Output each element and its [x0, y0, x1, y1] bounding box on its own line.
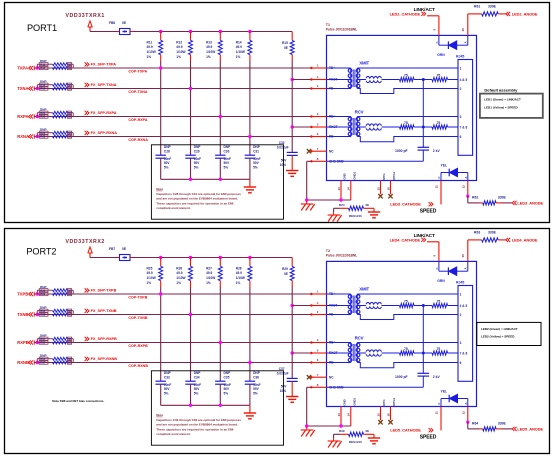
- svg-text:0E: 0E: [68, 67, 71, 70]
- svg-text:Default assembly: Default assembly: [484, 88, 518, 93]
- resistor R29 0E: [291, 258, 293, 267]
- svg-text:4: 4: [317, 75, 319, 79]
- svg-text:LED2 (Green) = LINK/ACT: LED2 (Green) = LINK/ACT: [481, 327, 518, 331]
- wire column R13 to cap: [219, 61, 221, 155]
- svg-text:49.9: 49.9: [147, 45, 153, 49]
- wire bus to ground: [249, 179, 251, 186]
- svg-text:1000 pF: 1000 pF: [395, 149, 408, 153]
- wire XMIT secondary top: [357, 293, 458, 295]
- pin 11 stub: [440, 407, 442, 431]
- no-connect pin 15: [378, 194, 382, 198]
- svg-text:0E: 0E: [68, 338, 71, 341]
- svg-text:5: 5: [317, 123, 319, 127]
- net label FX_SFP-RXNB: [85, 357, 87, 361]
- wire column R12 to cap: [190, 61, 192, 155]
- svg-text:R26: R26: [176, 266, 182, 270]
- svg-text:FX_SFP-TXPA: FX_SFP-TXPA: [91, 63, 117, 67]
- svg-text:Pulse J0011D01BNL: Pulse J0011D01BNL: [326, 28, 358, 32]
- wire R gnd right: [373, 208, 375, 211]
- svg-text:50V: 50V: [281, 159, 288, 163]
- svg-text:C36: C36: [253, 375, 259, 379]
- choke XMIT: [357, 305, 366, 307]
- svg-text:XMIT: XMIT: [359, 286, 369, 291]
- svg-text:YEL: YEL: [441, 164, 448, 168]
- svg-text:C35: C35: [224, 375, 230, 379]
- svg-text:R62: R62: [472, 196, 478, 200]
- svg-text:10: 10: [461, 254, 465, 258]
- svg-text:SPEED: SPEED: [420, 209, 437, 215]
- svg-text:3: 3: [460, 115, 462, 119]
- pin 9 stub: [438, 242, 440, 262]
- svg-text:DNP: DNP: [164, 145, 172, 149]
- svg-text:8: 8: [317, 157, 319, 161]
- svg-text:NC: NC: [329, 149, 334, 153]
- junction RXNA split: [36, 135, 39, 138]
- wire RXNA row: [34, 136, 311, 138]
- transformer RCV core: [352, 118, 354, 135]
- wire RCV secondary bottom detour: [357, 137, 458, 142]
- svg-text:COP-RXNB: COP-RXNB: [128, 364, 148, 368]
- PORT2 sheet frame: [5, 229, 550, 454]
- pin 3 stub: [311, 342, 326, 344]
- svg-text:7 & 8: 7 & 8: [460, 351, 468, 355]
- svg-text:R13: R13: [206, 40, 212, 44]
- transformer RCV primary winding: [350, 117, 352, 137]
- svg-text:1/10W: 1/10W: [236, 276, 245, 280]
- junction RXPB split: [36, 341, 39, 344]
- wire column R14 to cap: [249, 61, 251, 155]
- wire TXCT internal: [327, 79, 351, 81]
- wire R gnd right: [373, 434, 375, 437]
- svg-text:FX_SFP-TXPB: FX_SFP-TXPB: [91, 289, 117, 293]
- svg-text:COP-TXPA: COP-TXPA: [128, 69, 147, 73]
- resistor R33 0E: [39, 313, 48, 316]
- svg-text:DNP: DNP: [224, 371, 232, 375]
- junction termination node RCV: [422, 126, 425, 129]
- transformer XMIT secondary winding: [356, 294, 358, 315]
- pin 5 stub: [311, 352, 326, 354]
- svg-text:T1: T1: [326, 23, 330, 27]
- svg-text:1%: 1%: [206, 55, 211, 59]
- resistor R39 RES1210: [340, 433, 348, 435]
- wire R gnd left: [333, 208, 335, 212]
- svg-text:and are not populated on the E: and are not populated on the EVB8864 eva…: [156, 423, 238, 427]
- svg-text:10%: 10%: [280, 389, 287, 393]
- svg-text:0E: 0E: [366, 203, 370, 207]
- svg-text:PORT2: PORT2: [26, 247, 56, 257]
- resistor R35 0E: [39, 341, 48, 344]
- svg-text:75: 75: [437, 121, 441, 125]
- resistor R19 0E: [39, 87, 48, 90]
- svg-text:2: 2: [460, 313, 462, 317]
- svg-text:49.9: 49.9: [176, 45, 182, 49]
- wire cap bank bus: [161, 404, 250, 406]
- junction rail/R27: [219, 256, 222, 259]
- svg-text:0E: 0E: [68, 112, 71, 115]
- svg-text:C: C: [435, 267, 439, 269]
- pin 4 stub: [311, 79, 326, 81]
- pin 4 stub: [311, 305, 326, 307]
- pin 13 stub GND: [340, 181, 342, 201]
- svg-text:Capacitors C33 through C36 are: Capacitors C33 through C36 are optional …: [156, 418, 241, 422]
- svg-text:LED1 (Green) = LINK/ACT: LED1 (Green) = LINK/ACT: [484, 97, 521, 101]
- svg-text:TXNB: TXNB: [17, 312, 28, 317]
- svg-text:75: 75: [437, 300, 441, 304]
- svg-text:0E: 0E: [68, 362, 71, 365]
- svg-text:FX_SFP-RXPA: FX_SFP-RXPA: [91, 111, 117, 115]
- svg-text:49.9: 49.9: [206, 271, 212, 275]
- svg-text:5%: 5%: [224, 165, 229, 169]
- svg-text:R35: R35: [40, 341, 46, 345]
- pin 7 stub: [311, 376, 326, 378]
- no-connect NC: [307, 149, 311, 153]
- svg-text:COP-TXNB: COP-TXNB: [128, 316, 148, 320]
- svg-text:49.9: 49.9: [176, 271, 182, 275]
- svg-text:RCV: RCV: [355, 335, 364, 340]
- svg-text:R39: R39: [339, 429, 345, 433]
- svg-text:C: C: [437, 177, 441, 179]
- svg-text:8: 8: [317, 383, 319, 387]
- junction pin 12: [466, 421, 469, 424]
- junction rail/R28: [248, 256, 251, 259]
- svg-text:1%: 1%: [206, 281, 211, 285]
- svg-text:1%: 1%: [236, 55, 241, 59]
- wire TXCT: [292, 79, 311, 81]
- junction rail/R12: [189, 30, 192, 33]
- wire RD+ internal: [327, 342, 351, 344]
- wire CHS GND: [307, 160, 312, 162]
- transformer RCV secondary winding: [356, 117, 358, 137]
- junction TXCT: [291, 78, 294, 81]
- wire RCV secondary top: [357, 342, 458, 344]
- svg-text:0.022uF: 0.022uF: [277, 146, 289, 150]
- svg-text:0E: 0E: [284, 272, 288, 276]
- svg-text:0E: 0E: [68, 116, 71, 119]
- svg-text:RJ45: RJ45: [456, 55, 464, 59]
- ground (earth) cap bank: [244, 186, 256, 188]
- resistor R11 49.9: [160, 32, 162, 41]
- note box LED assignment: [477, 322, 541, 345]
- svg-text:RXPB: RXPB: [17, 340, 29, 345]
- svg-text:R63: R63: [474, 231, 480, 235]
- svg-text:R15: R15: [282, 41, 288, 45]
- svg-text:R21: R21: [40, 115, 46, 119]
- svg-text:5%: 5%: [253, 165, 258, 169]
- junction RXNB / termination: [248, 361, 251, 364]
- svg-text:R19: R19: [40, 87, 46, 91]
- junction RXCT: [291, 125, 294, 128]
- wire VDD rail: [90, 257, 117, 259]
- pin 14 stub GND1: [350, 181, 352, 201]
- resistor R26 49.9: [190, 258, 192, 267]
- svg-text:5%: 5%: [224, 391, 229, 395]
- pin 12 stub: [467, 181, 469, 197]
- wire XMIT secondary bottom detour: [357, 315, 458, 320]
- svg-text:7: 7: [317, 373, 319, 377]
- svg-text:1/10W: 1/10W: [206, 276, 215, 280]
- svg-text:FB6: FB6: [109, 21, 115, 25]
- svg-text:LED4_CATHODE: LED4_CATHODE: [390, 237, 421, 242]
- junction RXCT: [291, 351, 294, 354]
- svg-text:0E: 0E: [284, 46, 288, 50]
- junction TXPA / termination: [159, 66, 162, 69]
- pin 8 stub: [311, 386, 326, 388]
- pin 15 stub MTG: [380, 181, 382, 195]
- svg-text:12: 12: [461, 411, 465, 415]
- svg-text:MTG: MTG: [382, 173, 386, 179]
- svg-text:49.9: 49.9: [206, 45, 212, 49]
- wire TXPB row: [34, 293, 311, 295]
- wire RCV center: [382, 126, 400, 128]
- wire TD+ internal: [327, 67, 351, 69]
- transformer RCV core: [352, 344, 354, 361]
- svg-text:330E: 330E: [488, 5, 497, 9]
- svg-text:1/10W: 1/10W: [147, 276, 156, 280]
- junction TXNA split: [36, 87, 39, 90]
- pin 12 stub: [467, 407, 469, 423]
- wire cap to CHS GND: [422, 376, 424, 387]
- wire center-tap column: [291, 287, 293, 378]
- junction rail/R25: [159, 256, 162, 259]
- svg-text:4 & 5: 4 & 5: [460, 304, 468, 308]
- ground (chassis) R left: [333, 438, 335, 441]
- svg-text:Note FB6 and FB7 bias connecti: Note FB6 and FB7 bias connections.: [52, 399, 104, 403]
- svg-text:10%: 10%: [280, 163, 287, 167]
- note box LED assignment: [480, 94, 543, 118]
- net label FX_SFP-RXPB: [85, 337, 87, 341]
- wire RD+ internal: [327, 116, 351, 118]
- pin 15 stub MTG: [380, 407, 382, 421]
- wire XMIT secondary top: [357, 67, 458, 69]
- svg-text:GND1: GND1: [352, 397, 356, 405]
- svg-text:1/10W: 1/10W: [147, 50, 156, 54]
- svg-text:C33: C33: [164, 375, 170, 379]
- svg-text:FX_SFP-RXPB: FX_SFP-RXPB: [91, 337, 117, 341]
- svg-text:GND: GND: [343, 173, 347, 179]
- svg-text:COP-RXPA: COP-RXPA: [128, 118, 147, 122]
- resistor R31 0E: [39, 293, 48, 296]
- svg-text:TXNA: TXNA: [17, 86, 28, 91]
- ground (chassis) left: [306, 427, 308, 430]
- svg-text:330E: 330E: [498, 196, 507, 200]
- svg-text:VDD33TXRX1: VDD33TXRX1: [65, 13, 104, 19]
- svg-text:1%: 1%: [176, 281, 181, 285]
- ground (earth) under C37: [286, 396, 298, 398]
- svg-text:5: 5: [317, 349, 319, 353]
- svg-text:49.9: 49.9: [236, 271, 242, 275]
- wire TXCT internal: [327, 305, 351, 307]
- wire RXNB row: [34, 362, 311, 364]
- svg-text:R33: R33: [40, 313, 46, 317]
- svg-text:MTG1: MTG1: [392, 397, 396, 405]
- svg-text:75: 75: [437, 74, 441, 78]
- svg-text:A: A: [464, 403, 468, 405]
- pin 2 stub: [311, 314, 326, 316]
- pin 1 stub: [311, 293, 326, 295]
- svg-text:RJ45: RJ45: [456, 281, 464, 285]
- svg-text:1/10W: 1/10W: [206, 50, 215, 54]
- resistor R25 49.9: [160, 258, 162, 267]
- wire RCV secondary top: [357, 116, 458, 118]
- svg-text:SPEED: SPEED: [420, 435, 437, 441]
- transformer RCV primary winding: [350, 343, 352, 363]
- svg-text:C: C: [435, 41, 439, 43]
- svg-text:2: 2: [460, 87, 462, 91]
- svg-text:compliant environment.: compliant environment.: [156, 432, 191, 436]
- svg-text:R31: R31: [40, 292, 46, 296]
- wire RCV secondary bottom detour: [357, 363, 458, 368]
- wire TXNA row: [34, 88, 311, 90]
- wire RD- internal: [327, 136, 351, 138]
- svg-text:FX_SFP-RXNB: FX_SFP-RXNB: [91, 357, 118, 361]
- wire center-tap column: [291, 61, 293, 152]
- wire column R27 to cap: [219, 287, 221, 381]
- resistor R28 49.9: [249, 258, 251, 267]
- svg-text:15: 15: [376, 413, 380, 417]
- svg-text:R11: R11: [147, 40, 153, 44]
- net label LED3_ANODE: [512, 201, 514, 205]
- svg-text:0E: 0E: [68, 88, 71, 91]
- svg-text:NC: NC: [329, 375, 334, 379]
- no-connect pin 16: [388, 420, 392, 424]
- wire termination node to cap: [422, 80, 424, 148]
- svg-text:5%: 5%: [194, 165, 199, 169]
- svg-text:COP-TXNA: COP-TXNA: [128, 90, 148, 94]
- svg-text:R37: R37: [40, 361, 46, 365]
- svg-text:RXPA: RXPA: [17, 114, 28, 119]
- pin 10 stub: [467, 14, 469, 36]
- net label LED4_ANODE: [506, 238, 508, 242]
- resistor R27 49.9: [219, 258, 221, 267]
- svg-text:RXNA: RXNA: [17, 134, 29, 139]
- svg-text:7: 7: [317, 147, 319, 151]
- wire RXCT internal: [327, 126, 351, 128]
- svg-text:6: 6: [317, 132, 319, 136]
- svg-text:16: 16: [386, 413, 390, 417]
- pin 8 stub: [311, 160, 326, 162]
- svg-text:1%: 1%: [236, 281, 241, 285]
- svg-text:1: 1: [317, 64, 319, 68]
- svg-text:compliant environment.: compliant environment.: [156, 206, 191, 210]
- PORT1 sheet frame: [5, 3, 550, 223]
- wire VDD rail: [90, 31, 117, 33]
- svg-text:C: C: [437, 403, 441, 405]
- resistor R37 0E: [39, 361, 48, 364]
- junction termination node RCV: [422, 352, 425, 355]
- svg-text:MTG1: MTG1: [392, 171, 396, 179]
- net label LED2_ANODE: [506, 12, 508, 16]
- svg-text:Note: Note: [156, 413, 163, 417]
- svg-text:1%: 1%: [147, 281, 152, 285]
- svg-text:C29: C29: [194, 149, 200, 153]
- svg-text:C28: C28: [164, 149, 170, 153]
- svg-text:R64: R64: [472, 422, 478, 426]
- junction pin13 gnd: [339, 198, 342, 201]
- svg-text:11: 11: [435, 185, 439, 188]
- svg-text:0E: 0E: [68, 289, 71, 292]
- transformer XMIT secondary winding: [356, 68, 358, 89]
- svg-text:15: 15: [376, 187, 380, 191]
- junction termination node XMIT: [422, 78, 425, 81]
- ground (earth) R right: [368, 211, 380, 213]
- pin 16 stub MTG1: [390, 181, 392, 195]
- svg-text:R23: R23: [40, 135, 46, 139]
- resistor R15 0E: [291, 32, 293, 41]
- junction TXPB / termination: [159, 292, 162, 295]
- svg-text:MTG: MTG: [382, 399, 386, 405]
- pin 1 stub: [311, 67, 326, 69]
- pin 14 stub GND1: [350, 407, 352, 427]
- resistor R14 49.9: [249, 32, 251, 41]
- choke XMIT: [357, 79, 366, 81]
- junction TXNB / termination: [189, 313, 192, 316]
- svg-text:0E: 0E: [366, 429, 370, 433]
- svg-text:0.022uF: 0.022uF: [277, 372, 289, 376]
- svg-text:R24: R24: [339, 203, 345, 207]
- resistor R17 0E: [39, 67, 48, 70]
- svg-text:GND: GND: [343, 399, 347, 405]
- wire LED cathode: [427, 241, 439, 243]
- svg-text:COP-TXPB: COP-TXPB: [128, 295, 147, 299]
- svg-text:These capacitors are required: These capacitors are required for operat…: [156, 201, 233, 205]
- wire CHS GND: [307, 386, 312, 388]
- svg-text:LED3_CATHODE: LED3_CATHODE: [390, 202, 421, 207]
- pin 9 stub: [438, 16, 440, 36]
- svg-text:LED3_ANODE: LED3_ANODE: [517, 200, 543, 205]
- svg-text:LED2 (Yellow) = SPEED: LED2 (Yellow) = SPEED: [481, 335, 515, 339]
- svg-text:RES1210: RES1210: [349, 214, 362, 218]
- svg-text:RES1210: RES1210: [349, 440, 362, 444]
- svg-text:LED5_ANODE: LED5_ANODE: [517, 426, 543, 431]
- wire XMIT secondary bottom detour: [357, 89, 458, 94]
- svg-text:FB7: FB7: [109, 247, 115, 251]
- wire column R25 to cap: [160, 287, 162, 381]
- net label FX_SFP-TXPB: [85, 288, 87, 292]
- svg-text:0E: 0E: [122, 247, 127, 251]
- pin 6 stub: [311, 136, 326, 138]
- svg-text:LED5_CATHODE: LED5_CATHODE: [390, 428, 421, 433]
- svg-text:A: A: [463, 267, 467, 269]
- svg-text:1/10W: 1/10W: [176, 276, 185, 280]
- svg-text:XMIT: XMIT: [359, 60, 369, 65]
- svg-text:DNP: DNP: [194, 145, 202, 149]
- net label FX_SFP-RXPA: [85, 111, 87, 115]
- no-connect pin 16: [388, 194, 392, 198]
- resistor R21 0E: [39, 115, 48, 118]
- svg-text:1/10W: 1/10W: [236, 50, 245, 54]
- wire XMIT center: [382, 305, 400, 307]
- junction TXPA split: [36, 66, 39, 69]
- junction rail/R13: [219, 30, 222, 33]
- svg-text:0E: 0E: [68, 342, 71, 345]
- junction termination node XMIT: [422, 304, 425, 307]
- transformer XMIT core: [352, 70, 354, 88]
- ferrite bead FB7: [117, 257, 120, 259]
- junction RXNB split: [36, 361, 39, 364]
- svg-text:0E: 0E: [68, 358, 71, 361]
- svg-text:3: 3: [317, 338, 319, 342]
- svg-text:2 kV: 2 kV: [433, 375, 441, 379]
- net label FX_SFP-RXNA: [85, 131, 87, 135]
- ground (earth) R right: [368, 437, 380, 439]
- wire TXCT: [292, 305, 311, 307]
- resistor R12 49.9: [190, 32, 192, 41]
- svg-text:12: 12: [461, 185, 465, 189]
- wire RXCT: [292, 126, 311, 128]
- svg-text:0E: 0E: [122, 21, 127, 25]
- wire bus to ground: [249, 405, 251, 412]
- junction chassis gnd: [305, 424, 308, 427]
